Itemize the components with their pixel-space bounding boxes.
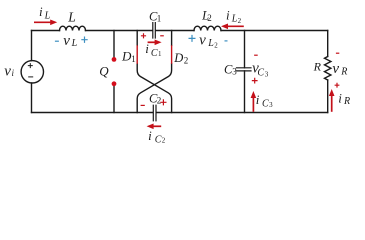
current arrow iC1: [148, 41, 156, 43]
svg-text:2: 2: [162, 136, 166, 144]
capacitor C3: [237, 68, 252, 71]
svg-text:L: L: [67, 9, 76, 24]
C1 plus label: [141, 33, 146, 38]
svg-text:i: i: [145, 41, 149, 56]
svg-text:2: 2: [157, 96, 162, 106]
svg-text:C: C: [155, 134, 162, 145]
wire left side lower: [31, 83, 33, 113]
svg-text:i: i: [39, 4, 43, 19]
wire right side lower: [327, 80, 329, 113]
R plus label: [335, 83, 340, 88]
wire top rail after C1: [156, 30, 194, 32]
vL2 plus label: [189, 35, 196, 42]
voltage source vi: [21, 61, 43, 83]
svg-text:v: v: [199, 32, 206, 48]
svg-text:3: 3: [269, 101, 273, 109]
svg-text:v: v: [4, 63, 11, 79]
svg-text:C: C: [262, 99, 269, 110]
current arrow iC3: [252, 97, 254, 112]
current arrow iL2: [227, 25, 244, 27]
svg-text:L: L: [207, 38, 214, 49]
source minus sign: [28, 76, 33, 78]
capacitor C2: [153, 105, 156, 121]
current arrow iL: [34, 21, 52, 23]
svg-text:R: R: [340, 67, 347, 78]
svg-text:2: 2: [207, 13, 212, 23]
svg-text:L: L: [44, 10, 51, 21]
wire bottom rail left: [32, 112, 153, 114]
wire top rail middle: [86, 30, 153, 32]
svg-text:v: v: [332, 61, 339, 77]
svg-text:1: 1: [131, 54, 136, 64]
svg-text:C: C: [257, 67, 264, 78]
svg-text:i: i: [256, 92, 260, 107]
svg-text:3: 3: [232, 67, 237, 77]
switch Q node dot top: [112, 57, 117, 62]
svg-text:Q: Q: [99, 63, 109, 78]
wire C3 branch upper: [244, 31, 246, 68]
wire bottom rail right: [157, 112, 328, 114]
vL2 minus label: [225, 40, 228, 42]
svg-text:R: R: [343, 96, 350, 107]
svg-text:i: i: [338, 91, 342, 106]
wire crossing branch D2 to C2 left: [137, 64, 171, 113]
wire switch Q upper: [113, 31, 115, 57]
inductor L2: [194, 26, 221, 30]
C2 minus label: [141, 104, 145, 106]
wire top rail right: [221, 30, 328, 32]
current arrow iR: [331, 95, 333, 112]
svg-text:2: 2: [184, 55, 189, 65]
diode D1 branch upper wire: [136, 31, 138, 46]
diode D1 red segment: [136, 45, 138, 64]
wire right side upper: [327, 31, 329, 57]
vL plus label: [81, 37, 87, 43]
svg-text:L: L: [71, 38, 78, 49]
wire crossing branch D1 to C2 right: [137, 64, 171, 113]
switch Q node dot bottom: [112, 81, 117, 86]
diode D2 branch upper wire: [171, 31, 173, 46]
source plus sign: [28, 63, 33, 68]
C3 minus label: [254, 54, 258, 56]
svg-text:2: 2: [214, 42, 218, 50]
resistor R: [325, 57, 331, 80]
capacitor C1: [153, 23, 156, 38]
wire left side upper: [31, 31, 33, 61]
diode D2 red segment: [171, 45, 173, 64]
vL minus label: [55, 40, 59, 42]
svg-text:C: C: [151, 48, 158, 59]
R minus label: [336, 52, 339, 54]
C3 plus label: [252, 78, 258, 84]
current arrow iC2: [153, 125, 162, 127]
wire top rail left: [32, 30, 60, 32]
svg-text:R: R: [313, 60, 322, 74]
svg-text:D: D: [173, 51, 183, 65]
svg-text:v: v: [63, 33, 70, 49]
svg-text:1: 1: [157, 14, 162, 24]
svg-text:i: i: [148, 128, 152, 143]
C2 plus label: [160, 99, 166, 105]
svg-text:i: i: [226, 7, 230, 22]
wire switch Q lower: [113, 86, 115, 112]
wire C3 branch lower: [244, 71, 246, 113]
svg-text:1: 1: [158, 50, 162, 58]
inductor L: [60, 26, 86, 30]
svg-text:3: 3: [265, 70, 269, 78]
svg-text:i: i: [12, 68, 15, 78]
svg-text:2: 2: [238, 17, 242, 25]
C1 minus label: [160, 35, 164, 37]
